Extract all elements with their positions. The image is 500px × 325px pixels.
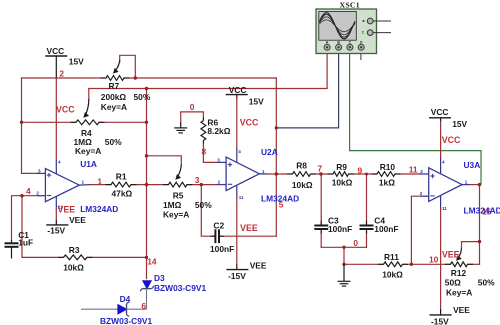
VCC1 power line: [55, 56, 57, 78]
wire C2 right to output vertical: [221, 235, 276, 237]
VCC3 power line: [440, 118, 442, 122]
svg-text:10kΩ: 10kΩ: [292, 180, 313, 190]
svg-text:15V: 15V: [69, 56, 84, 66]
wire caps bottom row: [321, 246, 366, 248]
svg-text:BZW03-C9V1: BZW03-C9V1: [100, 316, 152, 325]
VEE2 symbol bar: [226, 269, 248, 271]
wire minus node4 vertical to R3: [22, 196, 64, 258]
wire R4 wiper stem: [88, 89, 90, 100]
svg-text:4: 4: [442, 160, 445, 165]
svg-text:2: 2: [59, 68, 64, 78]
red power net labels: [56, 104, 461, 259]
resistor R4: [76, 120, 99, 125]
svg-text:Key=A: Key=A: [75, 146, 101, 156]
svg-text:U1A: U1A: [80, 159, 97, 169]
U2A bottom power line: [236, 185, 238, 198]
wire R6 bottom to U2A + input: [203, 143, 218, 162]
wire vertical to ground2: [343, 247, 345, 264]
junction R12 wiper loop: [478, 240, 481, 243]
svg-text:100nF: 100nF: [328, 224, 352, 234]
svg-text:Key=A: Key=A: [101, 102, 127, 112]
VEE1 symbol bar: [46, 224, 68, 226]
junction U2A output node 5: [275, 172, 278, 175]
svg-text:14: 14: [147, 257, 157, 267]
svg-text:9: 9: [358, 165, 363, 175]
wire U3A output: [470, 184, 480, 186]
junction node 3: [200, 183, 203, 186]
VCC2 power line: [236, 95, 238, 99]
pot arrow R12: [458, 249, 461, 258]
svg-text:-15V: -15V: [47, 225, 65, 235]
svg-text:50%: 50%: [195, 200, 212, 210]
op-amp U2A: [218, 157, 268, 191]
wire R11 row: [344, 263, 384, 265]
svg-text:U2A: U2A: [261, 147, 278, 157]
svg-text:VCC: VCC: [47, 46, 65, 56]
svg-text:100nF: 100nF: [210, 244, 234, 254]
op-amp U3A: [420, 168, 470, 202]
VEE3 symbol bar: [430, 314, 452, 316]
svg-text:8.2kΩ: 8.2kΩ: [207, 126, 230, 136]
junction node 1 row: [145, 183, 148, 186]
zener diode D4: [81, 302, 147, 316]
svg-text:3: 3: [217, 157, 220, 162]
svg-text:11: 11: [409, 165, 418, 175]
junction R4 wiper / scope A tap: [145, 87, 148, 90]
svg-text:2: 2: [420, 191, 423, 196]
junction scope B tap: [275, 126, 278, 129]
svg-text:LM324AD: LM324AD: [464, 206, 500, 216]
resistor R7: [106, 76, 124, 81]
scope right terminals: [367, 18, 373, 35]
svg-text:3: 3: [38, 168, 41, 173]
wire R3 to node 14: [87, 256, 147, 258]
svg-text:R5: R5: [173, 190, 184, 200]
zener diode D3: [141, 281, 154, 309]
wire green scope C to U3A output: [350, 51, 481, 185]
wire U3A feedback vertical: [411, 196, 420, 264]
VCC1 symbol bar: [45, 55, 67, 57]
svg-text:R1: R1: [116, 172, 127, 182]
svg-text:D3: D3: [154, 273, 165, 283]
svg-text:4: 4: [26, 186, 31, 196]
svg-text:3: 3: [195, 175, 200, 185]
ground below caps: [343, 264, 345, 281]
junction left rail / R4 row: [20, 121, 23, 124]
pot arrow R5: [178, 165, 182, 177]
junction node 7: [319, 172, 322, 175]
junction node 10: [410, 263, 413, 266]
wire scope A to R4 wiper row: [89, 51, 327, 89]
resistor R1: [111, 182, 131, 187]
junction R5 wiper loop: [145, 154, 148, 157]
ground near R6: [180, 123, 182, 128]
svg-text:10: 10: [429, 255, 439, 265]
svg-text:R7: R7: [109, 81, 120, 91]
svg-text:4: 4: [238, 149, 241, 154]
svg-text:10kΩ: 10kΩ: [332, 178, 353, 188]
svg-text:R10: R10: [380, 162, 396, 172]
svg-text:-15V: -15V: [431, 316, 449, 325]
svg-text:1uF: 1uF: [18, 238, 33, 248]
resistor lead stubs: [58, 78, 473, 264]
wire R4 row: [22, 121, 77, 123]
op-amp U1A: [37, 169, 90, 202]
svg-text:50%: 50%: [478, 278, 495, 288]
resistor R10: [377, 172, 395, 177]
svg-text:LM324AD: LM324AD: [80, 204, 118, 214]
wire blue scope B: [276, 51, 338, 128]
svg-text:VEE: VEE: [442, 250, 460, 260]
pot arrow R4: [86, 99, 89, 115]
svg-text:VEE: VEE: [250, 260, 267, 270]
resistor R6 vertical: [201, 121, 206, 141]
svg-text:0: 0: [353, 238, 358, 248]
svg-text:50%: 50%: [105, 137, 122, 147]
junction R4 right: [145, 121, 148, 124]
junction C3/C4 ground row: [342, 246, 345, 249]
svg-text:VEE: VEE: [453, 305, 470, 315]
resistor R12: [451, 262, 468, 267]
svg-text:100nF: 100nF: [374, 224, 398, 234]
svg-text:11: 11: [239, 195, 244, 200]
svg-text:4: 4: [58, 160, 61, 165]
wire output vertical to R12: [479, 185, 481, 265]
svg-text:50%: 50%: [134, 92, 151, 102]
svg-text:1MΩ: 1MΩ: [163, 200, 182, 210]
svg-text:VCC: VCC: [442, 135, 461, 145]
svg-text:50Ω: 50Ω: [445, 278, 461, 288]
junction node 0 / R11 row: [342, 263, 345, 266]
svg-text:-15V: -15V: [228, 271, 246, 281]
svg-text:VEE: VEE: [69, 215, 86, 225]
resistor R5: [169, 182, 188, 187]
svg-text:15V: 15V: [249, 97, 264, 107]
svg-text:R8: R8: [296, 161, 307, 171]
svg-text:2: 2: [36, 191, 39, 196]
capacitor C3: [314, 225, 328, 227]
scope bottom terminals: [324, 44, 364, 50]
svg-text:15V: 15V: [452, 119, 467, 129]
svg-text:1: 1: [262, 169, 265, 174]
svg-text:10kΩ: 10kΩ: [63, 262, 84, 272]
pot arrow R7: [115, 61, 119, 71]
svg-text:8: 8: [202, 147, 207, 157]
wire left vertical to U1A + input: [22, 78, 38, 173]
wire big vertical x146.5: [146, 89, 148, 279]
junction U3A output node 15: [478, 183, 481, 186]
capacitor C1: [11, 240, 13, 243]
wire R7 wiper loop: [120, 55, 136, 78]
svg-text:2: 2: [218, 180, 221, 185]
svg-text:XSC1: XSC1: [340, 1, 360, 10]
svg-text:47kΩ: 47kΩ: [112, 188, 133, 198]
wire vertical x276.3 net2/output: [275, 78, 277, 236]
resistor R8: [293, 172, 311, 177]
svg-text:1: 1: [97, 177, 102, 187]
svg-text:1kΩ: 1kΩ: [379, 178, 395, 188]
resistor R9: [333, 172, 349, 177]
U3A bottom power line: [440, 196, 442, 209]
svg-text:11: 11: [442, 206, 447, 211]
svg-text:R9: R9: [336, 162, 347, 172]
svg-text:11: 11: [58, 205, 63, 210]
oscilloscope XSC1: [316, 9, 391, 54]
svg-text:0: 0: [190, 102, 195, 112]
wire node3 vertical to C2: [201, 185, 213, 237]
wire R5 wiper loop: [147, 156, 182, 165]
svg-text:Key=A: Key=A: [446, 287, 472, 297]
junction node 9: [365, 173, 368, 176]
svg-text:LM324AD: LM324AD: [261, 194, 299, 204]
junction node 14: [145, 256, 148, 259]
svg-text:D4: D4: [120, 294, 131, 304]
resistor R3: [64, 255, 88, 260]
wire node0 ground to R6: [181, 112, 204, 123]
capacitor C4: [360, 225, 374, 227]
resistor R11: [384, 262, 403, 267]
VCC3 symbol bar: [429, 117, 451, 119]
svg-text:1: 1: [465, 180, 468, 185]
wire U1A output row: [90, 184, 111, 186]
svg-text:VEE: VEE: [240, 223, 258, 233]
svg-text:VCC: VCC: [240, 118, 259, 128]
svg-text:U3A: U3A: [464, 160, 481, 170]
svg-text:3: 3: [420, 169, 423, 174]
U1A bottom power line: [55, 196, 57, 209]
svg-text:VCC: VCC: [56, 104, 75, 114]
svg-text:200kΩ: 200kΩ: [101, 92, 127, 102]
svg-text:1: 1: [82, 179, 85, 184]
wire net2 top horizontal: [22, 77, 107, 79]
svg-text:7: 7: [318, 164, 323, 174]
wire C4 vertical: [366, 174, 368, 224]
wire U2A output row to U3A: [268, 173, 293, 175]
wire scope D stub: [360, 51, 362, 60]
svg-text:BZW03-C9V1: BZW03-C9V1: [154, 283, 206, 293]
svg-text:Key=A: Key=A: [163, 210, 189, 220]
VCC2 symbol bar: [226, 94, 248, 96]
svg-text:R3: R3: [69, 245, 80, 255]
wire C3 vertical: [320, 174, 322, 224]
capacitor C2: [214, 235, 216, 237]
wire U1A minus input row: [12, 196, 38, 240]
blue part labels: [80, 147, 500, 325]
svg-text:VCC: VCC: [431, 107, 449, 117]
junction node 4: [20, 194, 23, 197]
svg-text:6: 6: [141, 301, 146, 311]
junction R7 loop at net 2: [134, 76, 137, 79]
red node numbers: [26, 68, 492, 311]
svg-text:VCC: VCC: [229, 85, 247, 95]
wire R12 wiper loop: [462, 242, 480, 249]
svg-text:R11: R11: [384, 252, 399, 262]
tiny pin numbers: [36, 149, 467, 211]
svg-text:C2: C2: [213, 220, 224, 230]
svg-text:10kΩ: 10kΩ: [382, 270, 403, 280]
